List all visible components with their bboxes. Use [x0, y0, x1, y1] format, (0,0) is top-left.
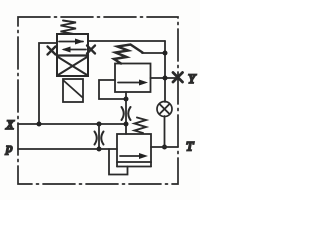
V1 crossed position	[58, 57, 87, 75]
node: vent tee	[163, 51, 168, 56]
V1 solenoid diagonal	[64, 81, 83, 98]
svg-text:p: p	[5, 140, 13, 155]
solenoid valve V1 body	[57, 34, 88, 76]
main valve spring	[135, 118, 147, 134]
orifice O2	[95, 132, 97, 145]
control line pilot to main valve	[125, 92, 127, 134]
node: O2 to P line	[97, 147, 102, 152]
V1 plugged port X right	[87, 46, 95, 54]
orifice O1	[122, 107, 124, 120]
pilot valve spring (diagonal)	[114, 45, 143, 64]
enclosure dash-dot border	[18, 17, 178, 184]
main valve flow arrow	[120, 155, 141, 157]
main valve lower passage line	[117, 166, 151, 168]
V1 plugged port X left	[48, 47, 56, 55]
wire: valve right port to right vertical	[88, 40, 165, 42]
V1 return spring	[61, 21, 77, 35]
main relief valve body	[117, 134, 151, 162]
V1 solenoid box	[63, 79, 83, 102]
orifice O2 line	[98, 124, 100, 149]
main valve pressure sensing loop	[109, 149, 128, 175]
node: X line end tee	[124, 122, 129, 127]
wire: valve left port down to X line	[39, 43, 57, 124]
X remote control line	[18, 123, 126, 125]
svg-text:Y: Y	[188, 71, 197, 86]
pilot valve flow arrow	[118, 82, 141, 84]
V1 flow path arrow (return, plugged)	[64, 49, 86, 51]
node: T tee	[162, 145, 167, 150]
node: X line branch to orifice O2	[97, 122, 102, 127]
V1 position divider	[57, 54, 88, 56]
plugged port X at Y	[173, 73, 183, 83]
wire: right vertical from top wire down to gauge circle	[164, 41, 166, 102]
wire: gauge circle to T line	[164, 116, 166, 147]
pilot valve drain loop	[99, 80, 126, 99]
node: loop to orifice line	[124, 97, 129, 102]
V1 flow path arrow (through)	[59, 41, 83, 43]
node: Y tee	[163, 76, 168, 81]
P pressure line	[18, 148, 117, 150]
T tank line	[151, 146, 178, 148]
pilot relief valve body	[115, 64, 151, 93]
svg-text:X: X	[5, 117, 15, 132]
node: X line branch to V1	[37, 122, 42, 127]
svg-text:T: T	[186, 139, 194, 154]
wire: Y port line	[151, 77, 179, 79]
gauge port circle	[157, 102, 172, 117]
gauge port cross	[160, 104, 170, 114]
wire: pilot spring vent line	[142, 52, 165, 54]
